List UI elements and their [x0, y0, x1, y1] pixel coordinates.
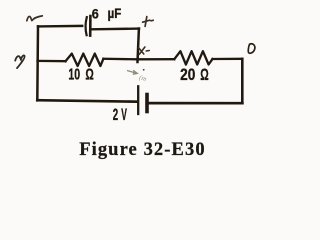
svg-text:10: 10: [68, 65, 80, 83]
svg-text:20: 20: [180, 66, 195, 84]
wire middle-left stub: [38, 60, 66, 63]
svg-text:Figure 32-E30: Figure 32-E30: [79, 140, 206, 160]
capacitor C 6uF right plate: [89, 16, 92, 36]
svg-text:V: V: [121, 105, 127, 124]
resistor R1 10 ohm zigzag: [66, 54, 104, 66]
wire right vertical: [241, 59, 244, 103]
wire top-right vertical drop: [138, 29, 139, 62]
annotation pencil gamma left: [15, 55, 24, 68]
resistor R2 20 ohm zigzag: [174, 51, 212, 64]
wire left vertical: [36, 26, 39, 100]
wire bottom-left: [37, 100, 137, 102]
wire top-left horizontal: [38, 25, 82, 28]
svg-text:Ω: Ω: [200, 64, 208, 83]
svg-text:Ω: Ω: [85, 66, 94, 84]
wire bottom-right: [149, 102, 243, 105]
svg-text:6: 6: [92, 6, 99, 22]
annotation pencil plus mark near top-right: [143, 17, 154, 27]
svg-text:µF: µF: [108, 6, 122, 21]
svg-text:2: 2: [113, 104, 119, 124]
annotation pencil node D top-right: [248, 44, 255, 53]
annotation pencil arrow with (m near battery: [128, 71, 138, 75]
capacitor C 6uF left plate: [86, 17, 87, 35]
battery B 2V short plate: [145, 95, 149, 112]
wire middle between resistors: [103, 58, 174, 61]
wire top-right horizontal: [92, 27, 140, 30]
pencil speck: [143, 69, 145, 71]
paper background: [0, 0, 317, 177]
battery B 2V long plate: [137, 86, 139, 114]
annotation pencil squiggle top-left: [27, 16, 43, 21]
wire middle-right to corner: [213, 58, 243, 61]
annotation pencil x mark near junction: [139, 47, 150, 54]
